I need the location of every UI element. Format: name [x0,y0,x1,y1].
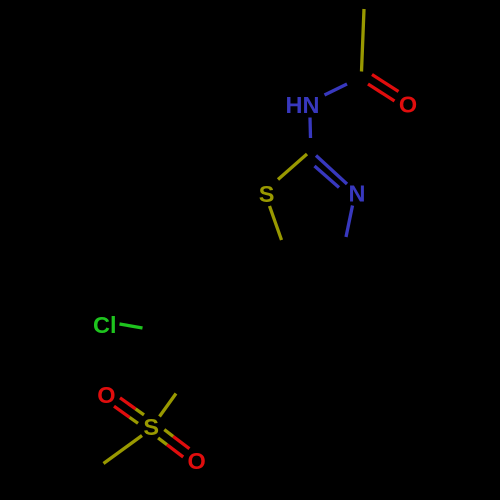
svg-text:S: S [259,181,275,207]
bond S-C(aryl) [160,394,177,417]
svg-text:N: N [349,181,366,207]
bond S=O double (lower): red near O, olive near S [158,430,189,457]
svg-text:Cl: Cl [93,312,117,338]
svg-text:O: O [399,92,417,118]
bond CH3-C(carbonyl) [362,9,365,72]
bond C=O double (carbonyl) [368,75,399,102]
bond N-C(carbonyl) [325,84,348,95]
bond N-C2 (amide N to thiazole C2) [308,118,312,139]
bond N-C4 (thiazole) [346,206,353,238]
bond S-CH3 (sulfonyl methyl) [104,436,143,464]
bond S-C5 (thiazole) [270,206,282,240]
svg-text:O: O [188,448,206,474]
bond C2-S (thiazole) [278,154,307,180]
bond S=O double (upper): red near O, olive near S [114,398,144,424]
svg-text:O: O [97,382,115,408]
bond Cl-C(aryl) [120,324,143,328]
svg-text:HN: HN [286,92,320,118]
svg-text:S: S [143,414,159,440]
bond C2=N double (thiazole) [315,156,348,188]
